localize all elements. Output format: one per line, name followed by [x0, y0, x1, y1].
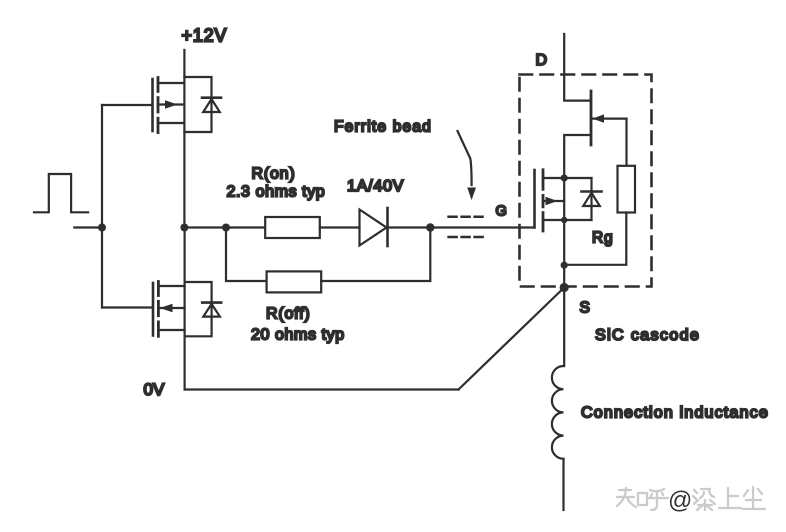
diode Q1 body diode [184, 77, 221, 132]
wire +12V rail [183, 50, 185, 228]
svg-text:Rg: Rg [592, 230, 613, 247]
diode Q3 body diode [582, 178, 602, 220]
node JFET source Q3 drain [561, 174, 568, 181]
input pulse waveform [34, 174, 88, 212]
wire Rg bottom [564, 213, 626, 265]
transistor J1 SiC JFET [564, 91, 626, 178]
node gate network junction [426, 223, 434, 231]
svg-text:2.3 ohms typ: 2.3 ohms typ [227, 184, 326, 201]
wire driver output vertical [184, 228, 186, 390]
wire 0V rail [185, 388, 459, 390]
resistor Rg [618, 166, 636, 213]
diode Q2 body diode [185, 282, 222, 336]
watermark 知乎 @梁上尘 [617, 487, 765, 514]
wire inductor bottom [562, 459, 564, 510]
node S [560, 283, 569, 292]
svg-text:S: S [580, 300, 590, 317]
SiC cascode dashed box [520, 75, 652, 287]
svg-text:SiC cascode: SiC cascode [595, 327, 700, 344]
resistor R(on) [265, 217, 320, 238]
resistor R(off) [267, 271, 322, 292]
wire input vertical [101, 105, 103, 308]
svg-text:D: D [536, 52, 548, 69]
node Q3 source junction [561, 217, 567, 223]
svg-text:20 ohms typ: 20 ohms typ [251, 327, 345, 344]
svg-text:R(off): R(off) [266, 306, 311, 323]
svg-text:1A/40V: 1A/40V [347, 178, 404, 195]
svg-text:Connection inductance: Connection inductance [581, 405, 769, 422]
inductor L1 connection inductance [552, 366, 564, 459]
svg-text:0V: 0V [144, 380, 165, 399]
ferrite bead upper dashes [449, 216, 483, 219]
wire cascode spine [563, 178, 565, 366]
ferrite bead pointer arrow [458, 131, 477, 200]
transistor Q1 high-side driver MOSFET [153, 78, 185, 133]
wire source return diagonal [459, 288, 565, 390]
node Rg return [561, 262, 568, 269]
svg-text:R(on): R(on) [252, 166, 296, 183]
wire R(off) branch left [226, 228, 267, 282]
wire input stub [74, 226, 102, 228]
diode D1 [360, 208, 388, 246]
wire R(off) branch right [321, 228, 430, 282]
ferrite bead lower dashes [449, 236, 486, 239]
wire drive row left [184, 226, 265, 228]
svg-text:G: G [496, 204, 507, 220]
svg-text:+12V: +12V [182, 26, 228, 46]
wire Q1 gate [102, 104, 151, 106]
wire D1 to gate node [388, 226, 431, 228]
node input junction [98, 224, 106, 232]
svg-text:Ferrite bead: Ferrite bead [334, 119, 432, 136]
node R(off) branch [222, 224, 230, 232]
wire JFET gate to Rg [625, 119, 627, 166]
wire R(on) to D1 [320, 226, 360, 228]
svg-text:@: @ [668, 487, 692, 514]
transistor Q3 cascode MOSFET [535, 170, 592, 231]
transistor Q2 low-side driver MOSFET [153, 282, 185, 337]
node driver output [180, 224, 188, 232]
wire gate node to G [430, 226, 533, 228]
wire Q2 gate [102, 306, 152, 308]
wire drain lead [564, 34, 591, 101]
